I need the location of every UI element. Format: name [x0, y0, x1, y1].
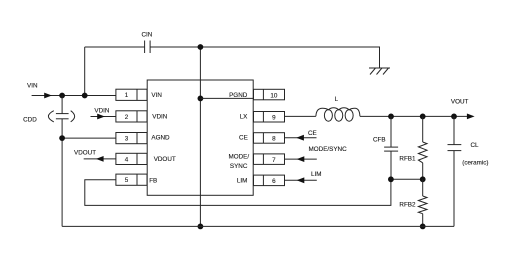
wire: CE input — [285, 137, 317, 139]
node: VIN/CDD junction — [59, 93, 65, 99]
svg-text:3: 3 — [125, 136, 129, 143]
wire: CL bottom lead — [453, 151, 455, 227]
capacitor CL — [448, 145, 462, 151]
node: CL branch — [451, 114, 457, 120]
svg-text:VDOUT: VDOUT — [74, 149, 96, 156]
svg-text:SYNC: SYNC — [230, 163, 248, 170]
svg-text:5: 5 — [125, 177, 129, 184]
pin 3 box — [116, 133, 147, 144]
svg-text:RFB1: RFB1 — [399, 156, 416, 163]
svg-text:8: 8 — [272, 136, 276, 143]
node: CFB branch — [388, 114, 394, 120]
pin 10 box — [254, 89, 285, 100]
svg-text:PGND: PGND — [229, 92, 248, 99]
wire: RFB2 bottom lead — [422, 214, 424, 227]
arrow: VIN input — [44, 93, 52, 99]
node: RFB1 branch — [420, 114, 426, 120]
pin 5 box — [116, 174, 147, 185]
svg-text:2: 2 — [125, 114, 129, 121]
wire: FB node line — [391, 178, 423, 180]
svg-text:CE: CE — [239, 135, 248, 142]
svg-text:4: 4 — [125, 156, 129, 163]
pin 8 box — [254, 133, 285, 144]
wire: CDD bottom lead / AGND net down to ground bus — [61, 119, 63, 227]
arrow: VDIN input — [97, 114, 105, 120]
wire: LIM input — [285, 179, 317, 181]
wire: CFB bottom lead — [390, 151, 392, 179]
svg-text:1: 1 — [125, 92, 129, 99]
node: RFB2 ground junction — [420, 224, 426, 230]
svg-text:RFB2: RFB2 — [399, 202, 416, 209]
arrow: CE input — [296, 135, 304, 141]
wire: top CIN net, right segment to ground — [150, 47, 379, 68]
pin 9 box — [254, 112, 285, 123]
wire: ground bus — [62, 225, 454, 227]
wire: CL top lead — [453, 116, 455, 144]
capacitor CFB — [384, 147, 398, 151]
wire: VIN input line — [32, 95, 116, 97]
svg-text:CDD: CDD — [23, 116, 37, 123]
ground — [369, 68, 390, 75]
svg-text:VDIN: VDIN — [152, 113, 167, 120]
svg-text:L: L — [335, 96, 339, 103]
svg-text:MODE/: MODE/ — [228, 153, 249, 160]
wire: CFB top lead — [390, 116, 392, 147]
svg-text:LX: LX — [240, 113, 249, 120]
node: FB/RFB junction — [420, 176, 426, 182]
wire: VOUT line from inductor — [360, 115, 471, 117]
svg-text:CE: CE — [308, 130, 317, 137]
node: PGND junction — [198, 96, 204, 102]
svg-text:VDOUT: VDOUT — [154, 156, 176, 163]
capacitor CIN — [145, 41, 151, 54]
svg-text:VIN: VIN — [151, 92, 162, 99]
inductor L — [316, 108, 360, 121]
wire: internal PGND net vertical — [199, 47, 201, 226]
node: CIN net junction — [198, 44, 204, 50]
svg-text:(ceramic): (ceramic) — [462, 159, 488, 166]
arrow: LIM input — [297, 177, 305, 183]
wire: vertical from CIN net to VIN line — [84, 47, 86, 96]
arrow: VDOUT output — [96, 156, 104, 162]
wire: FB routing from pin 5 around bottom — [85, 179, 391, 205]
svg-text:FB: FB — [149, 177, 157, 184]
svg-text:LIM: LIM — [311, 171, 322, 178]
wire: RFB1 top lead — [422, 116, 424, 142]
op-amp U1 (IC body) — [147, 80, 253, 195]
pin 2 box — [116, 111, 147, 122]
svg-text:VIN: VIN — [27, 83, 38, 90]
wire: PGND to pin 10 — [200, 97, 263, 99]
pin 1 box — [116, 89, 147, 100]
wire: VDIN input — [91, 116, 116, 118]
wire: CDD top lead — [61, 96, 63, 114]
svg-text:MODE/SYNC: MODE/SYNC — [309, 146, 348, 153]
node: FB/CFB junction — [388, 176, 394, 182]
svg-text:6: 6 — [272, 178, 276, 185]
svg-text:7: 7 — [272, 157, 276, 164]
svg-text:9: 9 — [272, 115, 276, 122]
node: ground bus junction — [198, 224, 204, 230]
wire: top CIN net, left segment — [85, 46, 145, 48]
resistor RFB1 — [418, 142, 427, 163]
capacitor CDD — [48, 111, 74, 122]
svg-text:10: 10 — [270, 92, 278, 99]
pin 6 box — [254, 175, 285, 186]
svg-text:CL: CL — [471, 142, 480, 149]
resistor RFB2 — [418, 196, 427, 214]
svg-text:CIN: CIN — [141, 32, 152, 39]
node: VIN/CIN junction — [82, 93, 88, 99]
svg-text:CFB: CFB — [373, 137, 386, 144]
svg-text:AGND: AGND — [151, 135, 170, 142]
pin 4 box — [116, 153, 147, 164]
wire: VDOUT output — [84, 158, 116, 160]
node: AGND junction — [59, 135, 65, 141]
svg-text:VDIN: VDIN — [94, 107, 109, 114]
wire: MODE/SYNC input — [285, 158, 317, 160]
arrow: MODE/SYNC input — [297, 156, 305, 162]
pin 7 box — [254, 154, 285, 165]
wire: RFB2 top lead — [422, 179, 424, 196]
wire: AGND to pin 3 — [62, 137, 116, 139]
wire: RFB1 bottom lead — [422, 163, 424, 180]
svg-text:LIM: LIM — [237, 177, 248, 184]
wire: LX to inductor — [285, 115, 316, 117]
arrow: VOUT output — [467, 114, 475, 120]
svg-text:VOUT: VOUT — [451, 98, 469, 105]
